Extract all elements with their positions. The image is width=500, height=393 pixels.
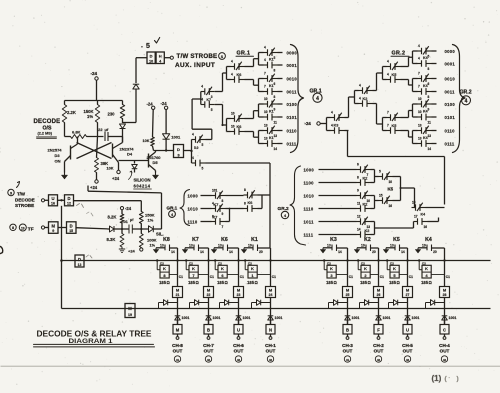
svg-text:+24: +24 — [90, 185, 98, 190]
svg-text:K1: K1 — [269, 84, 274, 88]
svg-text:8: 8 — [274, 95, 276, 99]
svg-text:230: 230 — [108, 112, 116, 117]
svg-text:16: 16 — [424, 225, 428, 229]
svg-text:7: 7 — [387, 123, 389, 127]
svg-text:CH-7: CH-7 — [203, 343, 214, 348]
svg-text:K6: K6 — [221, 237, 228, 243]
svg-text:9: 9 — [10, 191, 12, 195]
svg-text:C2: C2 — [361, 262, 365, 266]
svg-text:C1: C1 — [409, 275, 413, 279]
svg-text:F: F — [377, 328, 380, 333]
svg-text:C2: C2 — [189, 262, 193, 266]
svg-text:0010: 0010 — [287, 76, 298, 81]
svg-text:4: 4 — [192, 156, 194, 160]
svg-text:K: K — [251, 266, 254, 271]
svg-text:16: 16 — [51, 202, 55, 206]
svg-text:9: 9 — [177, 154, 179, 158]
svg-text:11: 11 — [428, 120, 432, 124]
svg-text:U: U — [237, 328, 240, 333]
svg-text:B: B — [207, 328, 210, 333]
svg-text:13: 13 — [418, 123, 422, 127]
svg-text:13: 13 — [390, 244, 394, 248]
svg-text:4: 4 — [331, 110, 333, 114]
svg-text:604214: 604214 — [134, 184, 151, 189]
svg-text:14: 14 — [274, 147, 278, 151]
svg-text:H: H — [159, 54, 162, 59]
svg-text:1001: 1001 — [383, 316, 391, 320]
svg-text:CH-2: CH-2 — [373, 343, 384, 348]
svg-text:11: 11 — [357, 201, 361, 205]
svg-text:M: M — [51, 223, 55, 228]
svg-text:13: 13 — [264, 123, 268, 127]
svg-text:N: N — [269, 328, 272, 333]
svg-text:10: 10 — [389, 180, 393, 184]
svg-text:22: 22 — [207, 293, 211, 297]
svg-text:10: 10 — [264, 97, 268, 101]
svg-text:K1: K1 — [269, 109, 274, 113]
svg-text:0011: 0011 — [287, 89, 298, 94]
svg-text:CH-4: CH-4 — [439, 343, 450, 348]
svg-text:CH-3: CH-3 — [342, 343, 353, 348]
svg-text:T/W STROBE: T/W STROBE — [177, 53, 218, 60]
svg-text:-24: -24 — [125, 206, 132, 211]
svg-text:GR.2: GR.2 — [460, 90, 472, 96]
svg-text:4: 4 — [418, 56, 420, 60]
svg-text:8: 8 — [428, 67, 430, 71]
svg-text:1001: 1001 — [352, 316, 360, 320]
svg-text:4: 4 — [316, 96, 319, 102]
svg-text:D: D — [67, 196, 70, 201]
svg-text:0101: 0101 — [287, 115, 298, 120]
svg-text:6.8K: 6.8K — [72, 130, 81, 135]
svg-text:23: 23 — [237, 293, 241, 297]
svg-text:C2: C2 — [248, 262, 252, 266]
svg-text:C1: C1 — [446, 275, 450, 279]
svg-text:GR.2: GR.2 — [278, 206, 290, 212]
svg-text:K7: K7 — [213, 216, 218, 220]
svg-text:B: B — [346, 328, 349, 333]
svg-text:OUT: OUT — [266, 349, 276, 354]
svg-text:0100: 0100 — [445, 102, 456, 107]
svg-text:19: 19 — [361, 244, 365, 248]
svg-text:K3: K3 — [330, 237, 337, 243]
svg-text:5: 5 — [202, 166, 204, 170]
svg-text:6: 6 — [357, 162, 359, 166]
svg-text:19: 19 — [248, 244, 252, 248]
svg-text:+24: +24 — [112, 176, 120, 181]
svg-text:4: 4 — [418, 44, 420, 48]
svg-text:42: 42 — [207, 358, 211, 362]
svg-text:+24: +24 — [128, 249, 136, 254]
svg-text:U: U — [406, 328, 409, 333]
svg-text:K: K — [425, 266, 428, 271]
svg-text:1001: 1001 — [243, 316, 251, 320]
svg-text:D: D — [70, 223, 73, 228]
svg-text:D5: D5 — [153, 160, 159, 165]
svg-text:10: 10 — [418, 110, 422, 114]
svg-text:2.2K: 2.2K — [67, 110, 76, 115]
svg-text:1001: 1001 — [213, 316, 221, 320]
svg-text:STROBE: STROBE — [15, 203, 34, 208]
svg-text:21: 21 — [176, 293, 180, 297]
svg-text:9: 9 — [357, 188, 359, 192]
svg-text:K1: K1 — [251, 237, 258, 243]
svg-text:OUT: OUT — [403, 349, 413, 354]
svg-text:4: 4 — [231, 72, 233, 76]
svg-text:8: 8 — [428, 95, 430, 99]
svg-text:C2: C2 — [160, 262, 164, 266]
svg-text:10: 10 — [264, 110, 268, 114]
svg-text:K2: K2 — [363, 203, 368, 207]
svg-text:14: 14 — [357, 227, 361, 231]
svg-text:1000: 1000 — [304, 167, 315, 172]
svg-text:C1: C1 — [179, 275, 183, 279]
svg-text:1001: 1001 — [182, 316, 190, 320]
svg-text:M: M — [176, 328, 180, 333]
svg-text:K: K — [192, 266, 195, 271]
svg-text:1010: 1010 — [188, 206, 199, 211]
svg-text:19: 19 — [21, 226, 25, 230]
svg-text:101: 101 — [212, 188, 218, 192]
svg-text:0010: 0010 — [445, 76, 456, 81]
svg-text:41: 41 — [346, 358, 350, 362]
svg-text:27: 27 — [406, 293, 410, 297]
svg-text:26: 26 — [377, 293, 381, 297]
svg-text:D: D — [150, 54, 153, 59]
svg-text:GR.1: GR.1 — [237, 51, 251, 57]
svg-text:11: 11 — [274, 120, 278, 124]
svg-text:9: 9 — [222, 212, 224, 216]
svg-text:41: 41 — [176, 358, 180, 362]
svg-text:9: 9 — [274, 107, 276, 111]
svg-text:C1: C1 — [240, 275, 244, 279]
svg-text:14: 14 — [229, 250, 233, 254]
svg-text:C2: C2 — [390, 262, 394, 266]
svg-text:5: 5 — [146, 43, 150, 50]
svg-text:42: 42 — [443, 358, 447, 362]
svg-text:28: 28 — [443, 293, 447, 297]
svg-text:1001: 1001 — [449, 316, 457, 320]
svg-text:1011: 1011 — [304, 219, 315, 224]
svg-text:9: 9 — [428, 107, 430, 111]
svg-text:4: 4 — [264, 58, 266, 62]
svg-text:5: 5 — [379, 169, 381, 173]
svg-text:14: 14 — [401, 250, 405, 254]
svg-text:K4: K4 — [421, 213, 426, 217]
svg-text:DECODE: DECODE — [34, 119, 61, 125]
svg-text:0110: 0110 — [445, 128, 456, 133]
svg-text:8: 8 — [274, 68, 276, 72]
svg-text:K2: K2 — [363, 97, 368, 101]
svg-text:1%: 1% — [87, 114, 93, 119]
svg-text:15: 15 — [379, 193, 383, 197]
svg-text:0101: 0101 — [445, 115, 456, 120]
svg-text:-24: -24 — [147, 102, 154, 107]
svg-text:8: 8 — [12, 226, 14, 230]
svg-text:10: 10 — [418, 97, 422, 101]
svg-text:42: 42 — [406, 358, 410, 362]
svg-text:1100: 1100 — [304, 180, 315, 185]
svg-text:GR.2: GR.2 — [392, 51, 406, 57]
svg-text:-.01: -.01 — [122, 220, 128, 224]
svg-text:TF: TF — [28, 226, 34, 232]
svg-text:1%: 1% — [148, 218, 154, 223]
svg-text:4: 4 — [201, 97, 203, 101]
svg-text:8: 8 — [357, 175, 359, 179]
svg-text:SILICON: SILICON — [134, 178, 151, 183]
svg-text:100K: 100K — [147, 238, 157, 243]
svg-text:5: 5 — [274, 56, 276, 60]
svg-text:5: 5 — [202, 143, 204, 147]
svg-text:1001: 1001 — [275, 316, 283, 320]
svg-text:5: 5 — [211, 108, 213, 112]
svg-text:1110: 1110 — [188, 219, 198, 224]
svg-text:K6: K6 — [248, 201, 253, 205]
svg-text:D: D — [177, 147, 180, 152]
svg-text:K4: K4 — [423, 84, 428, 88]
svg-text:K2: K2 — [363, 177, 368, 181]
svg-text:12: 12 — [357, 214, 361, 218]
svg-text:C2: C2 — [327, 262, 331, 266]
svg-text:K1: K1 — [269, 136, 274, 140]
svg-text:K6: K6 — [237, 73, 242, 77]
svg-text:4: 4 — [359, 83, 361, 87]
svg-text:0000: 0000 — [445, 49, 456, 54]
svg-text:AUX. INPUT: AUX. INPUT — [175, 62, 215, 69]
svg-text:13: 13 — [327, 244, 331, 248]
svg-text:10: 10 — [231, 111, 235, 115]
svg-text:6: 6 — [428, 82, 430, 86]
svg-text:K5: K5 — [393, 237, 400, 243]
svg-text:14: 14 — [428, 147, 432, 151]
svg-text:14: 14 — [338, 250, 342, 254]
svg-text:2N2574: 2N2574 — [48, 148, 63, 153]
svg-text:39K: 39K — [101, 161, 109, 166]
svg-text:7: 7 — [418, 71, 420, 75]
svg-text:D4: D4 — [127, 152, 133, 157]
svg-text:C2: C2 — [218, 262, 222, 266]
svg-text:8.3K: 8.3K — [107, 237, 116, 242]
svg-text:0100: 0100 — [287, 102, 298, 107]
svg-text:K3: K3 — [334, 124, 339, 128]
svg-text:25: 25 — [346, 293, 350, 297]
svg-text:4: 4 — [201, 84, 203, 88]
svg-text:8: 8 — [244, 201, 246, 205]
svg-text:8: 8 — [222, 199, 224, 203]
svg-text:K2: K2 — [365, 229, 370, 233]
svg-text:K: K — [330, 266, 333, 271]
svg-text:-: - — [141, 44, 143, 50]
svg-text:K5: K5 — [388, 187, 394, 192]
svg-text:C1: C1 — [272, 275, 276, 279]
svg-text:17: 17 — [414, 214, 418, 218]
svg-text:20: 20 — [259, 250, 263, 254]
svg-text:DECODE: DECODE — [15, 197, 35, 202]
svg-text:(1): (1) — [432, 374, 442, 383]
svg-text:OUT: OUT — [204, 349, 214, 354]
svg-text:15: 15 — [69, 229, 73, 233]
svg-text:OUT: OUT — [173, 349, 183, 354]
svg-text:K: K — [163, 266, 166, 271]
svg-text:T/W: T/W — [17, 192, 26, 197]
svg-text:CH-6: CH-6 — [233, 343, 244, 348]
svg-text:4: 4 — [192, 132, 194, 136]
svg-text:1010: 1010 — [304, 193, 315, 198]
svg-text:0111: 0111 — [445, 141, 455, 146]
svg-text:1001: 1001 — [412, 316, 420, 320]
svg-text:10: 10 — [149, 60, 153, 64]
svg-text:9: 9 — [52, 229, 54, 233]
svg-text:K1: K1 — [269, 58, 274, 62]
svg-text:5: 5 — [428, 54, 430, 58]
svg-text:K7: K7 — [214, 203, 219, 207]
svg-text:13: 13 — [264, 136, 268, 140]
svg-text:GR.1: GR.1 — [167, 206, 178, 211]
svg-text:7: 7 — [222, 225, 224, 229]
svg-text:CH-1: CH-1 — [265, 343, 276, 348]
svg-text:ON: ON — [55, 159, 61, 164]
svg-text:6: 6 — [274, 82, 276, 86]
svg-text:14: 14 — [200, 250, 204, 254]
svg-text:13: 13 — [78, 263, 82, 267]
svg-text:13: 13 — [218, 244, 222, 248]
svg-text:19: 19 — [422, 244, 426, 248]
svg-text:1001: 1001 — [171, 135, 181, 140]
svg-text:K4: K4 — [423, 136, 428, 140]
svg-text:14: 14 — [171, 250, 175, 254]
svg-text:4: 4 — [387, 59, 389, 63]
svg-text:24: 24 — [269, 293, 273, 297]
svg-text:0011: 0011 — [445, 89, 456, 94]
svg-text:7: 7 — [418, 84, 420, 88]
svg-text:-24: -24 — [161, 101, 168, 106]
svg-text:K4: K4 — [423, 109, 428, 113]
svg-text:1111: 1111 — [304, 232, 314, 237]
svg-text:13: 13 — [418, 136, 422, 140]
svg-text:OUT: OUT — [343, 349, 353, 354]
svg-text:K6: K6 — [237, 125, 242, 129]
svg-text:D3: D3 — [55, 153, 61, 158]
svg-text:K2: K2 — [364, 237, 371, 243]
svg-text:13: 13 — [189, 244, 193, 248]
svg-text:4: 4 — [359, 96, 361, 100]
svg-text:C1: C1 — [380, 275, 384, 279]
svg-text:OUT: OUT — [374, 349, 384, 354]
svg-text:8.2K: 8.2K — [108, 215, 117, 220]
svg-text:DECODE O/S & RELAY TREE: DECODE O/S & RELAY TREE — [37, 329, 152, 339]
svg-text:K: K — [393, 266, 396, 271]
svg-text:K5: K5 — [392, 73, 397, 77]
svg-text:4: 4 — [465, 98, 468, 104]
svg-text:12: 12 — [67, 202, 71, 206]
svg-text:D: D — [78, 257, 81, 262]
svg-text:C1: C1 — [349, 275, 353, 279]
svg-text:0001: 0001 — [287, 63, 298, 68]
svg-text:7: 7 — [387, 110, 389, 114]
svg-text:4: 4 — [159, 60, 161, 64]
svg-text:.22: .22 — [97, 127, 103, 132]
svg-text:0110: 0110 — [287, 128, 298, 133]
svg-text:10: 10 — [231, 124, 235, 128]
svg-text:C: C — [443, 328, 446, 333]
svg-text:K8: K8 — [163, 237, 170, 243]
svg-text:7: 7 — [264, 84, 266, 88]
svg-text:μf: μf — [105, 127, 109, 132]
svg-text:42: 42 — [237, 358, 241, 362]
svg-text:M: M — [128, 306, 132, 311]
svg-text:1110: 1110 — [304, 206, 314, 211]
svg-text:3: 3 — [211, 95, 213, 99]
svg-text:CH-8: CH-8 — [172, 343, 183, 348]
svg-text:1000: 1000 — [188, 193, 199, 198]
svg-text:-24: -24 — [91, 71, 98, 76]
svg-text:42: 42 — [377, 358, 381, 362]
svg-text:(2.2 MS): (2.2 MS) — [38, 132, 53, 136]
svg-text:K7: K7 — [192, 237, 199, 243]
svg-text:42: 42 — [269, 358, 273, 362]
svg-text:8: 8 — [244, 188, 246, 192]
svg-text:C1: C1 — [210, 275, 214, 279]
svg-text:16: 16 — [389, 204, 393, 208]
svg-text:0000: 0000 — [287, 50, 298, 55]
svg-text:5.0: 5.0 — [194, 146, 199, 150]
svg-text:4: 4 — [264, 45, 266, 49]
svg-text:19: 19 — [128, 313, 132, 317]
svg-text:SIL.: SIL. — [156, 231, 164, 236]
svg-text:10K: 10K — [107, 167, 114, 171]
svg-text:C2: C2 — [422, 262, 426, 266]
svg-text:13: 13 — [428, 134, 432, 138]
svg-text:4: 4 — [387, 72, 389, 76]
svg-text:1%: 1% — [150, 244, 156, 248]
svg-text:-24: -24 — [305, 121, 312, 126]
svg-text:7: 7 — [264, 71, 266, 75]
svg-text:13: 13 — [274, 134, 278, 138]
svg-text:20: 20 — [433, 250, 437, 254]
svg-text:13: 13 — [160, 244, 164, 248]
svg-text:CH-5: CH-5 — [402, 343, 413, 348]
svg-text:K: K — [364, 266, 367, 271]
svg-text:0111: 0111 — [287, 141, 297, 146]
svg-text:K5: K5 — [392, 124, 397, 128]
svg-text:10K: 10K — [143, 139, 150, 143]
svg-text:K4: K4 — [425, 237, 432, 243]
svg-text:15: 15 — [412, 200, 416, 204]
svg-text:20: 20 — [372, 250, 376, 254]
svg-text:4: 4 — [231, 59, 233, 63]
svg-text:OUT: OUT — [234, 349, 244, 354]
svg-text:K7: K7 — [207, 98, 211, 102]
svg-text:K4: K4 — [423, 56, 428, 60]
svg-text:OUT: OUT — [440, 349, 450, 354]
svg-text:K: K — [221, 266, 224, 271]
svg-text:U: U — [51, 196, 54, 201]
svg-text:): ) — [457, 376, 459, 383]
svg-text:0001: 0001 — [445, 61, 456, 66]
